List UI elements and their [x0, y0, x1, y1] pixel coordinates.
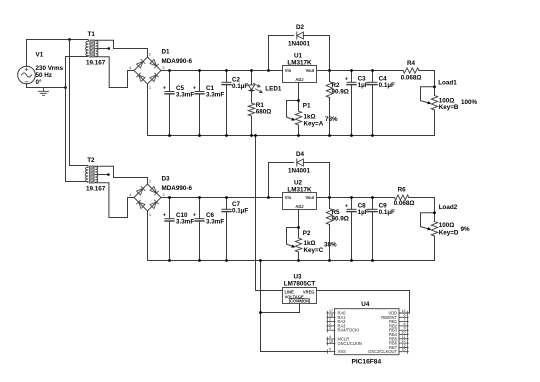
svg-text:4: 4: [129, 193, 131, 197]
U4 pin 13 RB7: [389, 343, 408, 350]
svg-text:0.1µF: 0.1µF: [379, 82, 395, 89]
junction C7 top: [225, 196, 228, 199]
svg-text:T2: T2: [87, 157, 95, 164]
junction C9 bottom: [371, 259, 374, 262]
U4 pin 16 OSC1/CLKIN: [327, 339, 362, 346]
junction C3 top: [350, 69, 353, 72]
junction D2 anode rail: [267, 69, 270, 72]
P2 setting 38%: [324, 242, 337, 249]
Load1 setting 100%: [461, 99, 478, 106]
svg-text:90.9Ω: 90.9Ω: [332, 215, 349, 222]
svg-text:1: 1: [149, 86, 151, 90]
R1 labels: [256, 102, 272, 116]
junction C3 bottom: [350, 134, 353, 137]
svg-text:1kΩ: 1kΩ: [304, 240, 316, 247]
svg-text:+: +: [345, 203, 348, 209]
D4 labels: [288, 151, 311, 175]
junction C4 top: [371, 69, 374, 72]
svg-text:230 Vrms: 230 Vrms: [36, 65, 64, 72]
svg-text:0°: 0°: [36, 78, 43, 86]
svg-text:Vout: Vout: [306, 195, 315, 200]
junction C8 bottom: [350, 259, 353, 262]
svg-text:Key=C: Key=C: [304, 247, 324, 254]
junction C1 bottom: [198, 134, 201, 137]
load potentiometer Load1: [421, 71, 438, 136]
U4 pin 15 OSC2/CLKOUT: [368, 348, 408, 355]
junction C6 bottom: [198, 259, 201, 262]
junction C7 bottom: [225, 259, 228, 262]
T2 labels: [86, 157, 106, 192]
svg-text:OSC2/CLKOUT: OSC2/CLKOUT: [368, 349, 397, 354]
U3 pin labels: [285, 290, 315, 304]
capacitor C1: [193, 71, 204, 136]
junction P1 bottom: [297, 134, 300, 137]
C2 labels: [232, 77, 248, 91]
U4 pin 8 RB2: [389, 322, 408, 329]
svg-text:0.068Ω: 0.068Ω: [394, 200, 415, 207]
svg-text:3: 3: [163, 66, 165, 70]
R5 labels: [332, 209, 349, 223]
wire V1 bottom: [27, 84, 66, 88]
svg-text:+: +: [163, 213, 166, 219]
svg-text:MDA990-6: MDA990-6: [162, 58, 193, 65]
T1 labels: [86, 31, 106, 66]
capacitor C3: [345, 71, 356, 136]
resistor R1: [248, 103, 254, 136]
svg-text:PIC16F84: PIC16F84: [351, 358, 381, 365]
svg-text:P1: P1: [303, 103, 311, 110]
junction P1 wiper tee: [297, 99, 300, 102]
C7 labels: [232, 201, 248, 215]
svg-text:0.068Ω: 0.068Ω: [401, 75, 422, 82]
U4 pin 10 RB4: [389, 331, 408, 338]
svg-text:16: 16: [329, 339, 333, 343]
P1 labels: [303, 103, 324, 128]
svg-text:Vin: Vin: [285, 68, 292, 73]
wire U3 VREG to U4 VDD: [317, 291, 410, 314]
wire R4 to Load1: [419, 70, 435, 72]
svg-text:1N4001: 1N4001: [288, 168, 311, 175]
svg-text:D3: D3: [162, 176, 171, 183]
wire R6 to Load2: [409, 197, 435, 199]
junction U2 Vout node: [328, 196, 331, 199]
T2 center tap terminal: [107, 173, 110, 176]
svg-text:15: 15: [402, 348, 406, 352]
U4 pin 5 VSS: [327, 348, 346, 355]
junction C5 top: [168, 69, 171, 72]
svg-text:LM317K: LM317K: [287, 186, 312, 193]
U1 pin labels: [285, 68, 315, 82]
T1 center tap stub: [96, 48, 109, 50]
U3 labels: [284, 274, 316, 288]
D1 labels: [162, 49, 193, 66]
junction V1- node: [64, 86, 67, 89]
resistor R2: [326, 71, 332, 136]
P1 setting 78%: [325, 116, 338, 123]
C4 labels: [379, 76, 395, 90]
svg-text:T1: T1: [88, 31, 96, 38]
capacitor C5: [163, 71, 174, 136]
potentiometer P1: [287, 101, 302, 136]
regulator U1 LM317K: [283, 66, 317, 83]
U4 pin 4 MCLR: [327, 335, 349, 342]
svg-text:LM317K: LM317K: [287, 59, 312, 66]
capacitor C10: [163, 198, 174, 261]
wire U1 ADJ down to P1: [298, 83, 300, 112]
svg-text:D2: D2: [296, 24, 305, 31]
diode D2: [269, 32, 330, 71]
svg-text:LM7805CT: LM7805CT: [284, 281, 316, 288]
svg-text:38%: 38%: [324, 242, 337, 249]
Load2 setting 9%: [461, 226, 471, 233]
C9 labels: [379, 203, 395, 217]
svg-text:19.167: 19.167: [86, 185, 106, 192]
svg-text:RA4/TOCKI: RA4/TOCKI: [338, 328, 360, 333]
regulator U3 LM7805CT: [283, 288, 317, 304]
U2 labels: [287, 180, 312, 194]
svg-text:1µF: 1µF: [358, 82, 369, 89]
wire V1+ down to T2 primary top: [70, 40, 88, 166]
wire T2 secondary top to D3 pin 2: [95, 166, 147, 177]
D2 labels: [288, 24, 311, 48]
svg-text:U3: U3: [293, 274, 302, 281]
junction C9 top: [371, 196, 374, 199]
U2 pin labels: [285, 195, 315, 209]
diode D4: [269, 159, 330, 198]
U4 pin 11 RB5: [389, 335, 408, 342]
P2 labels: [303, 230, 324, 254]
U4 pin 2 RA3: [327, 322, 346, 329]
svg-text:Key=D: Key=D: [439, 230, 459, 237]
wire T1 secondary bottom to D1 pin 4: [96, 57, 134, 88]
U4 pin 3 RA4/TOCKI: [327, 326, 359, 333]
svg-text:3.3mF: 3.3mF: [176, 219, 194, 226]
resistor R5: [326, 198, 332, 261]
U4 pin 1 RA2: [327, 318, 346, 325]
AC source V1: [18, 66, 36, 84]
resistor R6: [394, 195, 408, 200]
svg-text:OSC1/CLKIN: OSC1/CLKIN: [338, 341, 362, 346]
junction R1 bottom: [250, 134, 253, 137]
wire channel2 negative rail down to VSS net: [261, 261, 327, 352]
capacitor C9: [368, 198, 377, 261]
svg-text:100Ω: 100Ω: [439, 222, 455, 229]
microcontroller U4 PIC16F84: [335, 309, 400, 355]
wire V1 top to T1 primary top: [27, 40, 88, 67]
svg-text:Vout: Vout: [306, 68, 315, 73]
resistor R4: [403, 68, 419, 73]
junction P2 wiper tee: [297, 226, 300, 229]
wire channel1 negative rail down to U3 LINE: [256, 136, 283, 291]
transformer T1: [85, 39, 98, 57]
wire T1 primary bottom / V1- feed down to T2 primary bottom: [66, 57, 88, 182]
wire T1 secondary top to D1 pin 2: [96, 40, 148, 48]
U4 pin 7 RB1: [389, 318, 408, 325]
svg-text:0.1µF: 0.1µF: [232, 208, 248, 215]
svg-text:100%: 100%: [461, 99, 478, 106]
svg-text:2: 2: [149, 53, 151, 57]
svg-text:19.167: 19.167: [86, 59, 106, 66]
U4 pin 9 RB3: [389, 326, 408, 333]
svg-text:U4: U4: [361, 301, 370, 308]
svg-text:MDA990-6: MDA990-6: [162, 185, 193, 192]
svg-text:Load1: Load1: [438, 79, 457, 86]
junction LED1 top: [250, 69, 253, 72]
capacitor C8: [345, 198, 356, 261]
LED LED1: [248, 71, 262, 104]
junction R2 bottom: [328, 134, 331, 137]
C1 labels: [206, 85, 224, 99]
U4 pin 6 RB0/INT: [381, 313, 408, 320]
junction COMMON / VSS net: [259, 311, 262, 314]
svg-text:1N4001: 1N4001: [288, 41, 311, 48]
potentiometer P2: [287, 228, 302, 261]
negative rail channel 1: [148, 135, 435, 137]
junction VSS net at channel2 rail: [259, 259, 262, 262]
D3 pin numbers: [129, 180, 164, 218]
D3 labels: [162, 176, 193, 193]
Load2 labels: [439, 204, 459, 237]
junction V1+ feed to T2: [68, 38, 71, 41]
svg-text:1: 1: [149, 213, 151, 217]
svg-text:Key=A: Key=A: [304, 121, 324, 128]
svg-text:V1: V1: [36, 52, 44, 59]
junction C2 top: [225, 69, 228, 72]
capacitor C6: [193, 198, 204, 261]
junction D4 anode rail: [267, 196, 270, 199]
svg-text:D4: D4: [296, 151, 305, 158]
U4 pin 17 RA0: [327, 309, 346, 316]
svg-text:1µF: 1µF: [358, 209, 369, 216]
svg-text:VREG: VREG: [303, 290, 315, 295]
R6 labels: [394, 187, 415, 207]
svg-text:Key=B: Key=B: [439, 104, 459, 111]
C8 labels: [358, 203, 369, 217]
junction R5 bottom: [328, 259, 331, 262]
svg-text:9%: 9%: [461, 226, 471, 233]
svg-text:3: 3: [163, 193, 165, 197]
svg-text:D1: D1: [162, 49, 171, 56]
svg-text:0.1µF: 0.1µF: [379, 209, 395, 216]
svg-text:3.3mF: 3.3mF: [206, 92, 224, 99]
junction P2 bottom: [297, 259, 300, 262]
svg-text:90.9Ω: 90.9Ω: [332, 88, 349, 95]
svg-text:+: +: [163, 86, 166, 92]
regulator U2 LM317K: [283, 193, 317, 210]
junction U1 Vout node: [328, 69, 331, 72]
wire U2 Vout to R6: [317, 197, 395, 199]
svg-text:Load2: Load2: [439, 204, 458, 211]
transformer T2: [85, 165, 98, 183]
V1 labels: [36, 52, 64, 86]
C6 labels: [206, 212, 224, 226]
svg-text:Vin: Vin: [285, 195, 292, 200]
capacitor C4: [368, 71, 377, 136]
Load1 labels: [438, 79, 459, 111]
svg-text:R4: R4: [407, 60, 416, 67]
svg-text:ADJ: ADJ: [295, 77, 303, 82]
T1 center tap terminal: [108, 47, 111, 50]
svg-text:+: +: [345, 76, 348, 82]
wire D1 pin1 down to negative rail: [147, 84, 149, 136]
U4 pin 18 RA1: [327, 313, 346, 320]
bridge rectifier D1: [130, 49, 166, 89]
svg-text:ADJ: ADJ: [295, 204, 303, 209]
U4 pin 12 RB6: [389, 339, 408, 346]
capacitor C2: [222, 71, 231, 136]
wire DC+ rail channel 1: [161, 70, 283, 72]
capacitor C7: [222, 198, 231, 261]
svg-text:1kΩ: 1kΩ: [304, 113, 316, 120]
svg-text:4: 4: [129, 66, 131, 70]
junction C8 top: [350, 196, 353, 199]
C10 labels: [176, 212, 194, 226]
svg-text:LED1: LED1: [265, 86, 282, 93]
T2 center tap stub: [95, 174, 108, 176]
wire U1 Vout to R4: [317, 70, 404, 72]
svg-text:+: +: [193, 213, 196, 219]
svg-text:+: +: [193, 86, 196, 92]
svg-text:3.3mF: 3.3mF: [206, 219, 224, 226]
U4 labels: [351, 301, 381, 366]
negative rail channel 2: [148, 260, 435, 262]
junction C5 bottom: [168, 134, 171, 137]
U4 pin 14 VDD: [388, 309, 408, 316]
wire DC+ rail channel 2: [161, 197, 283, 199]
C5 labels: [176, 85, 194, 99]
R2 labels: [332, 82, 349, 96]
svg-text:78%: 78%: [325, 116, 338, 123]
junction C6 top: [198, 196, 201, 199]
wire T2 secondary bottom to D3 pin 4: [95, 183, 134, 218]
LED1 label: [265, 86, 282, 93]
bridge rectifier D3: [130, 178, 166, 216]
junction C10 bottom: [168, 259, 171, 262]
junction U3 feed at channel1 rail: [254, 134, 257, 137]
junction C1 top: [198, 69, 201, 72]
svg-text:0.1µF: 0.1µF: [232, 83, 248, 90]
U1 labels: [287, 53, 312, 67]
wire U2 ADJ down to P2: [298, 210, 300, 239]
C3 labels: [358, 76, 369, 90]
svg-text:VSS: VSS: [338, 349, 346, 354]
ground: [39, 88, 49, 96]
svg-text:COMMON: COMMON: [290, 299, 309, 304]
R4 labels: [401, 60, 422, 82]
svg-text:3: 3: [329, 326, 331, 330]
wire D3 pin1 down to negative rail: [147, 211, 149, 261]
svg-text:2: 2: [149, 180, 151, 184]
junction C4 bottom: [371, 134, 374, 137]
svg-text:680Ω: 680Ω: [256, 109, 272, 116]
wire U3 COMMON down-left: [261, 304, 300, 313]
svg-text:P2: P2: [303, 230, 311, 237]
D1 pin numbers: [129, 53, 164, 91]
junction C10 top: [168, 196, 171, 199]
junction C2 bottom: [225, 134, 228, 137]
svg-text:5: 5: [329, 348, 331, 352]
load potentiometer Load2: [421, 198, 438, 261]
svg-text:3.3mF: 3.3mF: [176, 92, 194, 99]
svg-text:R6: R6: [398, 187, 407, 194]
